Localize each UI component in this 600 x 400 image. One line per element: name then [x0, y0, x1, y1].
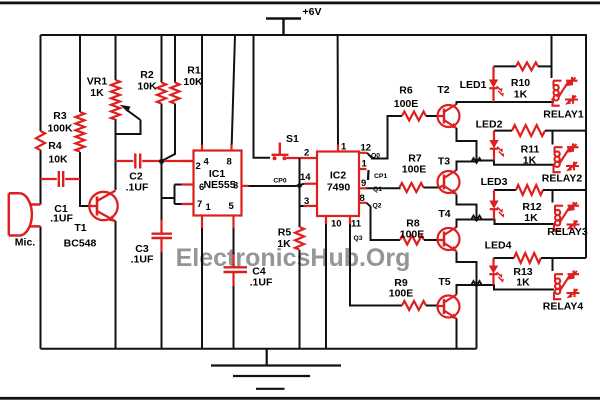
wire: CP1 link	[367, 170, 370, 180]
svg-text:1: 1	[341, 142, 347, 153]
svg-text:8: 8	[227, 157, 232, 168]
svg-text:Q2: Q2	[373, 203, 382, 210]
svg-text:VR1: VR1	[87, 76, 108, 88]
potentiometer VR1	[111, 80, 120, 120]
transistor T2	[438, 104, 460, 128]
switch S1	[254, 35, 271, 158]
wire: row4 top	[494, 257, 515, 259]
wire: IC2 pin1(top) to rail	[337, 35, 339, 145]
LED3	[493, 190, 495, 220]
resistor R2	[157, 83, 166, 104]
wire: rail drop to row1	[551, 35, 553, 78]
wire: IC1 pin7/1 column to ground	[201, 228, 203, 349]
wire: right rail	[585, 34, 587, 258]
svg-text:CP1: CP1	[374, 173, 387, 180]
svg-text:R3: R3	[53, 110, 67, 122]
capacitor C4	[224, 254, 248, 286]
wire: S1 to IC2 pin2	[287, 157, 318, 159]
svg-text:LED4: LED4	[485, 240, 512, 252]
resistor R13	[514, 253, 541, 263]
svg-text:100E: 100E	[394, 98, 419, 110]
LED4	[492, 258, 494, 285]
VR1 wiper arm	[116, 109, 141, 134]
wire: T3 emitter cascade to row3 junction	[457, 195, 555, 228]
node CP0 junction	[297, 183, 302, 188]
wire: T2 emitter cascade to row2 junction	[457, 128, 554, 171]
svg-text:10: 10	[331, 219, 342, 230]
svg-text:1K: 1K	[524, 212, 538, 224]
op-amp/timer IC1 NE555	[182, 144, 249, 228]
wire: Q1 to R7	[367, 187, 400, 190]
svg-text:T3: T3	[438, 156, 450, 168]
wire: bottom ground rail	[41, 348, 477, 350]
svg-text:Mic.: Mic.	[15, 237, 36, 249]
wire: Q3 to R9	[350, 224, 402, 306]
wire: IC1 pin4/pin8 to rail	[202, 35, 235, 145]
wire: T5 emitter to ground rail	[456, 319, 458, 349]
svg-text:100E: 100E	[400, 229, 425, 241]
svg-text:R1: R1	[187, 65, 201, 77]
svg-text:10K: 10K	[48, 154, 68, 166]
svg-text:IC2: IC2	[330, 170, 347, 182]
svg-text:CP0: CP0	[273, 178, 286, 185]
ground	[211, 349, 341, 389]
svg-text:2: 2	[196, 161, 201, 172]
svg-text:RELAY2: RELAY2	[542, 173, 583, 185]
wire: R8 to T4 base	[424, 239, 439, 241]
transistor T4	[438, 227, 460, 251]
svg-text:R2: R2	[140, 69, 154, 81]
svg-text:1: 1	[362, 159, 368, 170]
wire: S1/R5 column	[300, 158, 304, 349]
resistor R12	[516, 185, 543, 195]
relay RELAY1	[553, 77, 579, 106]
svg-text:.1UF: .1UF	[126, 182, 149, 194]
wire: row1 top	[494, 65, 517, 67]
wire: T4 emitter cascade to row4 junction	[457, 252, 555, 349]
svg-text:RELAY1: RELAY1	[543, 109, 584, 121]
svg-text:14: 14	[300, 172, 311, 183]
svg-text:3: 3	[304, 196, 309, 207]
svg-text:LED2: LED2	[476, 119, 503, 131]
svg-text:Q3: Q3	[354, 235, 363, 242]
svg-text:T2: T2	[437, 84, 449, 96]
svg-text:100E: 100E	[402, 164, 427, 176]
relay RELAY3	[554, 202, 580, 231]
svg-text:9: 9	[361, 178, 366, 189]
wire: row2 top	[494, 130, 512, 132]
frame bottom border	[0, 397, 600, 400]
svg-text:S1: S1	[286, 133, 299, 145]
svg-text:1K: 1K	[514, 89, 528, 101]
wire: VR1 column / T1 collector	[115, 35, 117, 349]
svg-text:R10: R10	[511, 77, 530, 89]
svg-text:8: 8	[360, 193, 365, 204]
resistor R11	[512, 125, 545, 136]
wire: row3 top	[494, 189, 516, 191]
wire: T2 collector to row1	[457, 102, 555, 105]
svg-text:1: 1	[206, 202, 212, 213]
transistor T1	[89, 191, 117, 222]
resistor R1	[171, 83, 180, 104]
svg-text:RELAY3: RELAY3	[547, 226, 588, 238]
wire: Q0 to R6	[367, 116, 402, 159]
svg-text:T4: T4	[438, 208, 450, 220]
svg-text:R4: R4	[48, 140, 62, 152]
svg-text:.1UF: .1UF	[250, 277, 273, 289]
svg-text:10K: 10K	[183, 76, 203, 88]
svg-text:7: 7	[197, 199, 202, 210]
svg-text:12: 12	[361, 143, 372, 154]
svg-text:4: 4	[204, 157, 210, 168]
wire: R3 column	[80, 35, 90, 206]
svg-text:1K: 1K	[523, 155, 537, 167]
resistor R10	[516, 62, 538, 70]
wire: Q2 to R8	[367, 203, 401, 240]
wire: IC2 pin10 to ground	[325, 224, 327, 349]
wire: R2 column	[162, 35, 176, 161]
wire: R6 to T2 base	[426, 115, 438, 117]
capacitor C3	[152, 220, 173, 252]
LED2	[493, 131, 495, 161]
svg-text:2: 2	[304, 148, 309, 159]
svg-text:1K: 1K	[516, 277, 530, 289]
svg-text:.1UF: .1UF	[131, 254, 154, 266]
svg-text:5: 5	[229, 201, 235, 212]
svg-text:R5: R5	[278, 227, 292, 239]
transistor T3	[438, 170, 460, 194]
svg-text:3: 3	[233, 181, 238, 192]
svg-text:T5: T5	[438, 276, 450, 288]
svg-text:11: 11	[351, 219, 362, 230]
svg-text:+6V: +6V	[303, 6, 322, 18]
LED1	[492, 66, 494, 102]
node junction C2/R1/R2/pin2	[159, 159, 164, 164]
wire: 555 pins 6-7 bracket	[162, 185, 182, 205]
wire: R9 to T5 base	[426, 305, 438, 307]
relay RELAY4	[554, 270, 580, 299]
svg-text:100E: 100E	[389, 288, 414, 300]
svg-text:7490: 7490	[327, 182, 351, 194]
svg-text:BC548: BC548	[64, 238, 97, 250]
relay RELAY2	[554, 143, 580, 172]
resistor R6	[402, 112, 426, 121]
microphone Mic.	[9, 193, 41, 235]
wire: C3 column	[161, 161, 163, 348]
resistor R3	[76, 112, 85, 152]
svg-text:.1UF: .1UF	[50, 213, 73, 225]
svg-text:R6: R6	[399, 85, 413, 97]
frame top border	[0, 2, 600, 5]
wire: IC1 pin5 column	[233, 228, 235, 254]
svg-text:Q1: Q1	[373, 186, 382, 193]
transistor T5	[438, 295, 460, 319]
capacitor C1	[41, 171, 81, 187]
svg-text:10K: 10K	[137, 81, 157, 93]
power +6V symbol	[266, 19, 301, 36]
svg-text:T1: T1	[74, 222, 86, 234]
counter IC2 7490	[304, 145, 368, 225]
wire: CP0 line IC1 pin3 to IC2 pin14	[249, 184, 305, 186]
resistor R5	[295, 227, 304, 250]
svg-text:100K: 100K	[47, 123, 73, 135]
resistor R9	[402, 301, 426, 310]
capacitor C2	[116, 154, 194, 169]
svg-text:NE555: NE555	[203, 179, 235, 191]
svg-text:RELAY4: RELAY4	[543, 301, 584, 313]
svg-text:LED3: LED3	[481, 176, 508, 188]
resistor R8	[400, 236, 424, 245]
svg-text:1K: 1K	[277, 238, 291, 250]
resistor R7	[400, 183, 424, 192]
svg-text:LED1: LED1	[460, 79, 487, 91]
wire: +6V top rail	[41, 34, 587, 36]
node junction row2	[472, 158, 482, 163]
wire: R4 column	[40, 35, 42, 349]
wire: R7 to T3 base	[424, 187, 440, 189]
svg-text:1K: 1K	[90, 87, 104, 99]
resistor R4	[36, 131, 45, 150]
